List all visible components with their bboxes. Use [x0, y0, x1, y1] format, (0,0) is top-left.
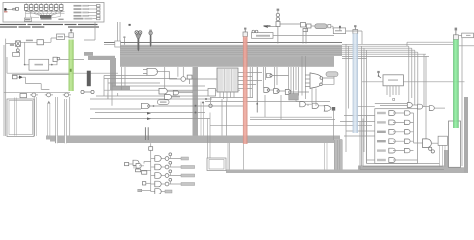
pin tiny left of white box: [339, 26, 341, 28]
bus vertical right edge: [464, 97, 468, 173]
label box top-right: [462, 33, 474, 38]
wire U16 right output to right bar: [403, 81, 464, 83]
array row 3: [377, 129, 414, 134]
wire label box to mesh: [273, 35, 334, 37]
wire verticals below RN1: [222, 99, 227, 136]
wire pair x63 through bus: [64, 99, 66, 143]
bus bottom rail: [226, 150, 468, 173]
text AC label top-center: [264, 25, 271, 27]
gate U9: [264, 88, 274, 93]
wire pair x35: [35, 97, 37, 136]
node bubbles on label box: [252, 30, 255, 33]
gate U19: [429, 106, 445, 111]
box gray below mux: [289, 94, 299, 101]
gate U7: [165, 95, 181, 100]
label above wire Q1: [26, 40, 33, 42]
capsule label gray: [315, 24, 327, 29]
tree row 3: [151, 170, 195, 178]
box dark end of chain: [332, 107, 335, 111]
wire pairs below box: [440, 145, 449, 167]
gate U20 big output: [423, 139, 439, 153]
wire chain links: [296, 88, 324, 106]
plug P1: [13, 8, 16, 10]
wire legend box drops: [84, 22, 120, 44]
array row 4: [377, 139, 414, 144]
gate U14: [312, 103, 318, 108]
label box left of W1: [57, 34, 65, 40]
wire bundle band to right: [342, 44, 453, 58]
wire RL1 right: [49, 64, 53, 66]
box small left of RN1: [208, 89, 216, 97]
transistor cluster Q3: [301, 23, 315, 44]
gate U15 OR: [324, 105, 331, 111]
pin P5 left of box U16: [377, 71, 381, 78]
wire chain horizontals: [210, 117, 372, 125]
wire W4 right edge drop: [461, 38, 463, 166]
wire below W2: [243, 144, 245, 170]
gate G-a on row: [32, 93, 36, 97]
relay box RL1: [29, 59, 49, 70]
wire drops band to gates: [264, 56, 306, 99]
bus band main (parallel wire bundle): [120, 45, 342, 67]
wire spine: [150, 143, 152, 191]
label capsule mid: [158, 100, 170, 105]
connector housing box right: [449, 121, 461, 167]
wire long row y92.7: [4, 92, 70, 94]
wire relay drops: [25, 11, 62, 17]
node bubbles below Q1: [16, 49, 19, 52]
clock tree bottom: top box: [149, 147, 153, 151]
array row 6: [367, 158, 418, 163]
gate U13: [300, 102, 306, 107]
gate G-c on row: [65, 93, 69, 97]
gate G-b on row: [47, 93, 51, 97]
bus thick Z-path left: [84, 52, 130, 90]
harness bar W4 (green right): [453, 40, 459, 129]
wire left rail vertical: [4, 39, 6, 136]
node circle left: [209, 104, 212, 107]
bus vertical mid (x195): [193, 67, 199, 136]
wire RL1 left: [25, 64, 29, 66]
wire pair x14.5: [15, 98, 17, 136]
junction dots center: [202, 102, 204, 104]
wire blue-area verticals: [346, 44, 367, 166]
array row 5: [377, 148, 414, 153]
connector CN1 (black square): [4, 8, 6, 10]
frame box top-left (legend panel): [3, 3, 104, 23]
harness bar W3 (blue): [353, 34, 358, 134]
gate U10: [274, 89, 286, 94]
wire horizontals crossing W2: [205, 73, 330, 102]
gate U11: [285, 90, 309, 95]
capsule label right of mux: [326, 72, 338, 77]
gate U3 AND: [143, 68, 217, 79]
wire loop rectangle lower-left: [7, 99, 34, 137]
harness bar W2 (salmon): [243, 37, 248, 145]
label box OSC: [24, 18, 31, 21]
box tiny right of capsule: [328, 25, 331, 28]
wire W4 out right: [459, 45, 474, 47]
connector top of W2: [243, 32, 247, 37]
wire label box to W1 connector: [65, 36, 69, 38]
bottom-right gate array frame: [375, 109, 418, 164]
wire pair bus2 to bottom rail: [228, 143, 230, 170]
wire y42.2 into W4: [407, 42, 453, 46]
box small above RL1: [13, 53, 20, 57]
wire pair x56 through bus: [56, 97, 58, 143]
gate U2 with bubble: [53, 57, 57, 61]
wire relay header rail: [25, 11, 64, 13]
resistor network RN1 (striped box): [217, 68, 238, 92]
wire mux out to capsule: [322, 77, 334, 85]
note text line 2: [0, 26, 99, 27]
wire U16 pins below: [387, 86, 399, 97]
wire to top label box: [44, 38, 57, 42]
wire dark red inside W2: [244, 38, 246, 58]
wire RN1 pins below: [210, 92, 253, 101]
legend rows right column: [74, 5, 101, 20]
array row 2: [377, 120, 414, 125]
connector bar dark (x88): [87, 71, 91, 87]
nested frame wires bottom-right: [360, 116, 367, 170]
diode D1 row: [12, 75, 17, 78]
gate U17: [407, 103, 417, 108]
bus riser center: [334, 139, 342, 170]
wire box before bottom rail: [207, 158, 226, 171]
pin P4 small: [123, 36, 125, 44]
box small at band left edge: [115, 41, 121, 47]
wire array left feeds: [340, 106, 375, 136]
tree row 2: [151, 161, 195, 169]
wire CN1 to plug: [7, 8, 13, 10]
wire long under RL1: [7, 57, 118, 75]
wire mesh left-center verticals: [104, 67, 183, 106]
box on row (module): [20, 94, 27, 98]
gate U5b small: [173, 91, 193, 95]
label box white top-center: [333, 28, 345, 34]
wire U2 to W1 crossing: [53, 59, 84, 64]
label CN1 (red): [4, 11, 7, 12]
gate U6 NAND: [142, 103, 244, 108]
label text right of J2: [58, 19, 63, 20]
label tick on W1: [70, 69, 72, 72]
jumper o-o symbol: [81, 90, 94, 93]
tree left branch: [125, 160, 151, 192]
box small right of Q1: [37, 40, 44, 45]
mux U12: [305, 73, 334, 89]
tree row 5: [151, 189, 172, 195]
IC U16 box with pins: [383, 75, 403, 86]
arrow mark top-center: [264, 26, 269, 28]
wire mesh left-center horizontals: [90, 76, 240, 119]
connector top of W4: [453, 35, 458, 40]
note text line 1: [0, 24, 131, 26]
capacitor pair into bus: [145, 127, 148, 140]
crystal Y1 stack: [276, 9, 300, 44]
wire label box to W4: [459, 34, 462, 36]
pin P3 above band: [149, 30, 152, 47]
gate U4 small: [181, 75, 192, 84]
wire capsule to white box: [331, 26, 333, 29]
harness bar W1 (green left): [69, 40, 74, 92]
label tick on W1: [70, 69, 72, 72]
wire right verticals from bundle: [409, 46, 426, 139]
gate U18: [418, 104, 430, 109]
gate U5: [159, 88, 193, 96]
wire pair right of mid bus: [201, 102, 204, 136]
wire dark above band: [104, 42, 342, 44]
wire Q1 row: [6, 42, 37, 49]
connector top of W1: [69, 33, 73, 38]
wire drop x24.7: [24, 42, 26, 65]
wire from white box right: [346, 31, 362, 44]
wire U16 left input: [362, 81, 383, 83]
connector top of W3: [353, 30, 358, 34]
wire pair riser center: [325, 140, 343, 170]
wire gray bundle below band x290: [250, 67, 296, 98]
relay bank K1-K8: [24, 3, 63, 11]
bus GND rail lower-left: [46, 136, 340, 144]
array row 1: [377, 111, 414, 116]
transistor Q1: [16, 41, 21, 47]
arrow marks center: [147, 112, 151, 115]
wire chain drops: [265, 95, 333, 140]
pin P2 pair above band: [135, 31, 142, 52]
pin terminator below U16: [393, 98, 395, 100]
wire array inner vertical: [414, 113, 423, 143]
wire pair to bottom box: [208, 113, 211, 159]
wire array top row: [375, 104, 408, 106]
wire dark vertical x257: [256, 67, 258, 113]
tree row 1: [151, 153, 189, 161]
wire pair x47 arrow: [48, 103, 50, 136]
box right of U20: [438, 136, 447, 145]
gate U8 bubble: [267, 73, 289, 77]
node text GND left: [10, 44, 14, 46]
connector J2 (dark bar): [40, 15, 52, 18]
tree row 4: [151, 178, 195, 186]
label box right of W2 top: [252, 33, 274, 39]
